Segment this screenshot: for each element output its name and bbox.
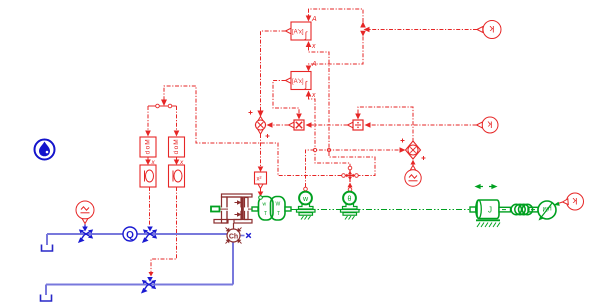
wire: K3 to torque source [557, 202, 563, 204]
spring SP1 coils [511, 204, 533, 214]
constant K1 circle [483, 21, 501, 39]
wire: T2 to Mod2 [176, 106, 178, 131]
svg-text:T: T [264, 211, 267, 217]
Mod block MOD1 [140, 137, 156, 157]
constant K2 circle [482, 117, 498, 133]
wire: constant K2 to divider D1 right [371, 124, 477, 126]
integrator U2 [A'x] [291, 72, 311, 90]
wire: diamond J2 output to divider D1 top [358, 107, 413, 141]
converter C1 (speed/torque) [259, 197, 286, 221]
svg-text:J: J [488, 206, 492, 215]
Ch node corner arrows [226, 228, 242, 244]
constant K3 circle [567, 193, 584, 210]
svg-text:o: o [173, 145, 180, 149]
node: cross junction X1 [343, 169, 357, 182]
pump P1 chamber arrows [235, 201, 241, 216]
arrow into Mod1 top [145, 131, 151, 137]
svg-text:W: W [276, 202, 281, 208]
shaft: converter to inertia J1 [291, 209, 470, 211]
svg-text:[A'x]: [A'x] [292, 30, 304, 36]
output port triangle K2 [477, 122, 483, 128]
wire: top feed to integrator U1 A-input [309, 9, 364, 22]
hydraulic node Ch [227, 229, 240, 242]
pipe: Ch to X marker [240, 235, 245, 237]
valve V3 [142, 281, 155, 293]
wire: Mod1 to limiter L1 [147, 157, 149, 160]
wire: T2 to Mod1 [147, 106, 149, 131]
tank T2 [41, 295, 52, 302]
signal source G2 circle (command) [76, 201, 94, 219]
output port triangle M1 [289, 122, 295, 128]
svg-text:k: k [489, 23, 494, 34]
pipe: riser to Ch node [232, 242, 234, 285]
spring SP1 stub left [499, 207, 511, 212]
pipe: drop to tank T1 [46, 234, 48, 245]
wire: omega feedback to U2 x-input via x315 [309, 96, 351, 166]
svg-text:d: d [145, 150, 152, 154]
arrow into U1 x pin [306, 41, 312, 47]
svg-text:Ch: Ch [229, 234, 238, 241]
pump P1 piston [241, 198, 244, 220]
svg-text:Q: Q [126, 230, 134, 241]
arrow into valve V3 [147, 277, 153, 282]
arrow into summer S1 right [267, 122, 273, 128]
valve V1 [79, 230, 92, 242]
wire: pump case drain to Ch node [233, 223, 235, 229]
theta sensor signal port circle [348, 188, 352, 192]
wire: L2 output down to valve V3 [151, 187, 177, 272]
svg-text:M: M [173, 139, 180, 144]
inertia J1 body [476, 200, 499, 219]
wire: F1 output to pump displacement port [260, 189, 262, 193]
T2 port circles [156, 104, 172, 108]
wire: U1 output to summer S1 top [261, 31, 286, 111]
angle sensor ST (theta) [341, 192, 360, 220]
wire: multiplier M1 output to summer S1 right [273, 124, 289, 126]
integrator U1 [A'x] [291, 22, 311, 40]
shaft port stub pump left [211, 207, 220, 212]
output port triangle K3 [563, 199, 569, 205]
svg-text:o: o [145, 145, 152, 149]
valve V2 [143, 230, 156, 242]
arrow K1 line left [364, 27, 370, 33]
pipe: drop to tank T2 [45, 285, 47, 296]
output port triangle source G1 top [410, 165, 415, 170]
pipe: supply line to Ch node [47, 233, 227, 235]
svg-text:T: T [277, 211, 280, 217]
wire: constant K1 to splitter T1 [369, 29, 477, 31]
signal source G1 circle [405, 170, 421, 186]
svg-text:k: k [487, 119, 492, 130]
hop marker on x315 crossing [313, 148, 316, 151]
arrow into divider D1 top [355, 114, 361, 120]
arrow into F1 top [258, 167, 264, 173]
wire: divider D1 output to multiplier M1 right [312, 124, 348, 126]
output port triangle K1 [477, 27, 483, 33]
port marker X (unused Ch port) [246, 233, 251, 238]
Mod block MOD2 [169, 137, 185, 157]
speed sensor SW (omega) [297, 192, 316, 220]
arrow into U1 A pin [306, 16, 312, 22]
svg-text:w: w [302, 196, 309, 203]
spring SP1 stub right [528, 207, 538, 212]
blue arrow into valve V1 [84, 225, 86, 229]
wire: X1 left to Mod splitter T2 [164, 86, 342, 176]
svg-text:x²: x² [257, 177, 262, 183]
wire: G2 to valve V1 [84, 224, 86, 226]
X1 inner arrows [346, 171, 354, 180]
wire: splitter T1 down to integrator U2 A-input [309, 37, 364, 66]
divider D1 [353, 120, 363, 130]
svg-text:[A'x]: [A'x] [292, 79, 304, 85]
svg-text:A: A [311, 16, 317, 23]
pump P1 port slots [218, 207, 249, 210]
output port triangle U2 [286, 78, 292, 84]
torque source MT1 circle [538, 201, 556, 221]
pump P1 body [214, 194, 252, 223]
output port triangle D1 [348, 122, 354, 128]
wire: source G1 up into diamond J2 bottom [412, 164, 414, 166]
arrow into valve V2 [147, 227, 153, 232]
svg-text:k: k [572, 195, 577, 206]
arrow into converter top port [258, 192, 264, 197]
svg-text:θ: θ [348, 196, 352, 203]
arrow into U2 x pin [306, 91, 312, 97]
inertia J1 direction arrows [476, 185, 496, 188]
arrow into L2 top with x label [174, 160, 180, 166]
svg-text:x: x [311, 92, 316, 99]
converter C1 control port circle [259, 196, 263, 200]
wire: summer S1 output to square block F1 [260, 134, 262, 167]
wire: theta feedback to U1 x-input [309, 47, 376, 176]
arrow into multiplier M1 top [296, 114, 302, 120]
summer S1 circle-X [249, 111, 270, 139]
pipe: return line lower [46, 284, 233, 286]
arrow theta into X1 bottom [348, 183, 353, 188]
converter C1 right stub [285, 207, 291, 211]
svg-text:x: x [311, 43, 316, 50]
limiter block L2 [169, 165, 185, 187]
arrow into diamond J2 left [400, 147, 406, 153]
svg-text:M: M [145, 139, 152, 144]
square block F1 x^2 [255, 172, 267, 184]
arrow into splitter T2 [161, 100, 167, 107]
arrow into L1 top with x label [145, 160, 151, 166]
arrow up into J2 bottom [411, 160, 416, 165]
output port triangle U1 [286, 28, 292, 34]
wire: U2 output to multiplier M1 top [273, 81, 299, 114]
multiplier M1 [294, 120, 304, 130]
wire: Mod2 to limiter L2 [176, 157, 178, 160]
arrow into summer S1 top [257, 111, 263, 118]
svg-text:w: w [263, 202, 267, 208]
arrow into U2 A pin [306, 66, 312, 72]
fluid properties icon W1 (droplet) [35, 140, 55, 160]
splitter T1 up/down arrows [360, 22, 366, 37]
pump P1 port channels [219, 208, 254, 210]
arrow into Mod2 top [174, 131, 180, 137]
wire: omega sensor signal to diamond J2 left [306, 150, 405, 187]
omega sensor signal port circle [304, 187, 308, 191]
converter C1 left stub [252, 207, 258, 211]
arrow into divider D1 right [365, 122, 371, 128]
wire: L1 output down to valve V2 [149, 187, 151, 225]
arrow into multiplier M1 right [306, 122, 312, 128]
svg-text:A: A [311, 61, 317, 68]
output port triangle F1 bottom [258, 184, 264, 189]
svg-text:d: d [173, 150, 180, 154]
flow sensor Q1 [123, 227, 137, 241]
tank T1 [42, 245, 53, 252]
inertia J1 stub left [470, 207, 476, 212]
arrow into torque source port [554, 202, 560, 206]
output port triangle G2 bottom [82, 219, 88, 224]
node: splitter T2 bar [148, 105, 177, 107]
limiter block L1 [140, 165, 156, 187]
X1 port circles [342, 166, 359, 177]
wire: theta sensor up into X1 [349, 183, 351, 188]
ground under J1 [476, 220, 500, 227]
hop marker on x329 crossing [327, 148, 330, 151]
diamond summer J2 [401, 139, 426, 161]
